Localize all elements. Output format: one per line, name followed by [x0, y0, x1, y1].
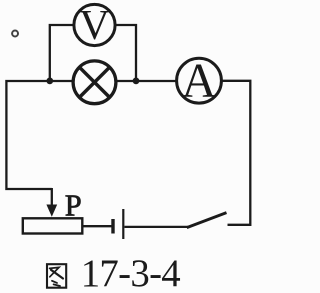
battery cell: long plate (+): [122, 209, 124, 239]
svg-text:P: P: [65, 188, 82, 222]
wire: voltmeter left lead (from circle left, left then down to junction): [50, 25, 74, 81]
switch S blade: [187, 213, 227, 228]
caption CJK char 图 (drawn as strokes): [47, 264, 66, 288]
rheostat wiper arrow shaft: [51, 188, 53, 206]
terminal dot (small open circle top-left): [12, 31, 18, 37]
ammeter U2 circle: [177, 58, 222, 103]
wire: lamp right to ammeter: [116, 80, 178, 82]
node: left junction: [46, 78, 53, 85]
svg-text:A: A: [181, 55, 216, 108]
svg-text:V: V: [79, 2, 110, 49]
lamp EL circle: [73, 61, 116, 104]
wire: rheostat to battery: [82, 225, 112, 227]
node: right junction: [133, 78, 140, 85]
wire: lamp row left horizontal, left edge vertical, bottom-left horizontal: [6, 81, 73, 189]
wire: voltmeter right lead (right then down to junction): [116, 25, 137, 81]
lamp X cross: [79, 67, 109, 97]
wire: battery to switch pivot: [125, 226, 189, 228]
wire: ammeter right lead, down right side to switch terminal: [221, 81, 250, 225]
rheostat wiper arrowhead: [46, 205, 57, 217]
voltmeter U1 circle: [74, 4, 115, 45]
rheostat P body: [23, 218, 83, 233]
battery cell: short plate (-): [111, 219, 114, 234]
svg-text:17-3-4: 17-3-4: [81, 252, 181, 293]
